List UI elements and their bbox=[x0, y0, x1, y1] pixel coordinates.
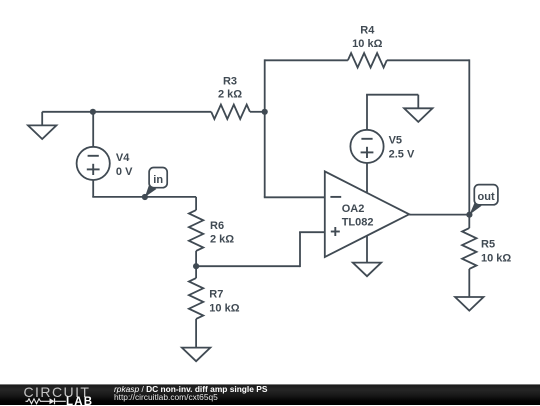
wire V5 ground stub bbox=[417, 95, 419, 109]
node out flag bbox=[469, 203, 481, 215]
svg-text:V4: V4 bbox=[116, 152, 130, 164]
svg-text:R6: R6 bbox=[210, 220, 224, 232]
wire right vertical bbox=[468, 59, 470, 214]
footer text bbox=[114, 384, 267, 394]
voltage source V5 body bbox=[350, 130, 383, 163]
wire V5 bottom lead bbox=[366, 163, 368, 193]
wire non-inverting input vertical bbox=[299, 232, 301, 267]
resistor R7 bbox=[189, 278, 203, 319]
ground bbox=[353, 263, 381, 277]
svg-text:in: in bbox=[153, 174, 163, 186]
svg-text:10 kΩ: 10 kΩ bbox=[481, 252, 511, 264]
wire R7 top lead bbox=[195, 266, 197, 278]
svg-text:0 V: 0 V bbox=[116, 166, 133, 178]
wire R5 top lead bbox=[468, 215, 470, 229]
svg-text:R3: R3 bbox=[223, 76, 237, 88]
wire V4 bottom lead bbox=[92, 180, 94, 197]
node junction in bbox=[142, 194, 148, 200]
svg-text:R7: R7 bbox=[209, 289, 223, 301]
svg-text:out: out bbox=[478, 191, 495, 203]
wire R3 left lead bbox=[42, 111, 211, 113]
wire ground stub left bbox=[41, 112, 43, 126]
wire R6 bottom lead bbox=[195, 251, 197, 266]
node junction out bbox=[466, 212, 472, 218]
svg-text:10 kΩ: 10 kΩ bbox=[352, 38, 382, 50]
svg-text:TL082: TL082 bbox=[342, 217, 374, 229]
op-amp U1 OA2 TL082 bbox=[325, 171, 409, 257]
wire V5 top lead bbox=[366, 95, 368, 130]
resistor R4 bbox=[348, 53, 387, 67]
svg-text:2.5 V: 2.5 V bbox=[389, 148, 415, 160]
wire to inverting input bbox=[264, 196, 325, 198]
voltage source V4 body bbox=[77, 147, 110, 180]
svg-text:V5: V5 bbox=[389, 134, 402, 146]
wire top right segment bbox=[387, 59, 470, 61]
node junction R6 R7 bbox=[193, 263, 199, 269]
svg-text:OA2: OA2 bbox=[342, 203, 365, 215]
wire op-amp ground stub bbox=[366, 236, 368, 263]
ground bbox=[404, 108, 432, 122]
ground bbox=[28, 125, 56, 139]
resistor R5 bbox=[462, 228, 476, 269]
wire left vertical bbox=[264, 59, 266, 197]
svg-text:2 kΩ: 2 kΩ bbox=[218, 88, 242, 100]
wire R6 top lead bbox=[195, 197, 197, 210]
wire op-amp output bbox=[409, 214, 469, 216]
ground bbox=[455, 297, 483, 311]
wire R3 right lead bbox=[250, 111, 265, 113]
wire V4 to R6 bbox=[92, 196, 196, 198]
wire V4 top lead bbox=[92, 112, 94, 147]
ground bbox=[182, 348, 210, 362]
wire R7 to ground bbox=[195, 319, 197, 348]
wire V5 top horizontal bbox=[366, 94, 418, 96]
resistor R3 bbox=[211, 105, 250, 119]
footer bar bbox=[0, 384, 540, 405]
CircuitLab logo bbox=[0, 385, 100, 406]
wire junction to non-inverting input horizontal bbox=[196, 265, 300, 267]
node junction R3 right bbox=[262, 109, 268, 115]
node in flag bbox=[145, 186, 157, 197]
wire R5 to ground bbox=[468, 269, 470, 297]
svg-text:10 kΩ: 10 kΩ bbox=[209, 302, 239, 314]
svg-text:R4: R4 bbox=[360, 24, 375, 36]
resistor R6 bbox=[189, 210, 203, 251]
wire into non-inverting input bbox=[299, 231, 325, 233]
svg-text:R5: R5 bbox=[481, 238, 495, 250]
wire top left segment bbox=[265, 59, 348, 61]
node junction V4 top bbox=[90, 109, 96, 115]
svg-text:2 kΩ: 2 kΩ bbox=[210, 234, 234, 246]
